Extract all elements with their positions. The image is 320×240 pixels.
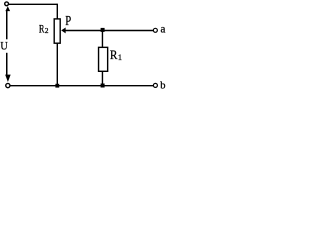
terminal b xyxy=(153,83,157,87)
voltage arrow U: upper arrowhead xyxy=(6,7,9,10)
terminal a xyxy=(153,28,157,32)
terminal (bottom-left input) xyxy=(6,83,10,87)
svg-text:2: 2 xyxy=(45,27,49,35)
wire bottom: input terminal to terminal b xyxy=(10,85,153,87)
svg-text:a: a xyxy=(161,23,166,35)
svg-text:R: R xyxy=(110,48,118,63)
svg-text:U: U xyxy=(0,40,7,53)
wire: junction to terminal a xyxy=(103,29,154,31)
wire top: input terminal to R2 top xyxy=(9,3,58,5)
resistor R1 body xyxy=(99,47,108,71)
voltage arrow U: lower arrowhead xyxy=(6,75,10,81)
wire: R1 bottom stub xyxy=(101,71,103,85)
svg-text:b: b xyxy=(160,81,165,92)
junction: R1 bottom lead on bottom wire xyxy=(101,84,105,88)
wire: R2 top stub xyxy=(56,4,58,19)
svg-text:P: P xyxy=(65,13,71,29)
voltage arrow U: upper shaft xyxy=(6,10,8,39)
svg-text:R: R xyxy=(39,23,45,36)
terminal (top-left input) xyxy=(5,2,9,6)
wire: R2 bottom stub xyxy=(56,43,58,86)
potentiometer R2 wiper arrow xyxy=(62,28,65,32)
junction: R2 bottom lead on bottom wire xyxy=(55,84,59,88)
potentiometer R2 body xyxy=(54,19,60,43)
voltage arrow U: lower shaft xyxy=(6,53,8,75)
svg-text:1: 1 xyxy=(118,53,122,62)
junction: wiper / R1 / terminal a node xyxy=(101,28,105,32)
wire: wiper to node junction xyxy=(65,29,103,31)
wire: R1 top stub xyxy=(101,30,103,47)
